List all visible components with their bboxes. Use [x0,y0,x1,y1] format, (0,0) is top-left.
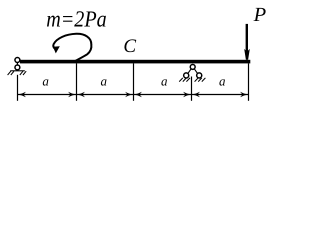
beam [20,60,250,64]
svg-text:P: P [253,4,267,26]
dimension arrowheads segment 1 [18,92,26,98]
dimension arrowheads segment 2 [77,92,85,98]
force P arrowhead [244,49,250,60]
extension line at right support [191,77,193,101]
svg-text:a: a [219,73,226,88]
dimension line [18,94,249,96]
svg-text:m=2Pa: m=2Pa [46,6,106,31]
svg-text:a: a [161,73,168,88]
force P arrow stem [246,24,248,53]
right support: right roller [197,73,202,78]
extension line at left end [17,75,19,101]
left support: roller circle [15,65,20,70]
extension line at moment point [76,63,78,100]
extension line at C [133,63,135,100]
right support: right link [194,69,198,74]
svg-text:a: a [42,73,49,88]
dimension arrowheads segment 3 [134,92,142,98]
right support: pin circle [190,64,195,69]
right support: left roller [184,73,189,78]
left support: ground line [10,70,25,72]
right support: hatching [179,78,205,82]
right support: left link [188,69,192,74]
left support: pin circle [15,58,20,63]
dimension arrowheads segment 4 [192,92,200,98]
moment curved arrow [53,34,91,62]
svg-text:a: a [101,73,108,88]
svg-text:C: C [123,36,136,57]
moment arrowhead [53,46,60,53]
left support: hatching [8,71,27,75]
left support: link [16,62,18,65]
extension line at right end [248,63,250,100]
